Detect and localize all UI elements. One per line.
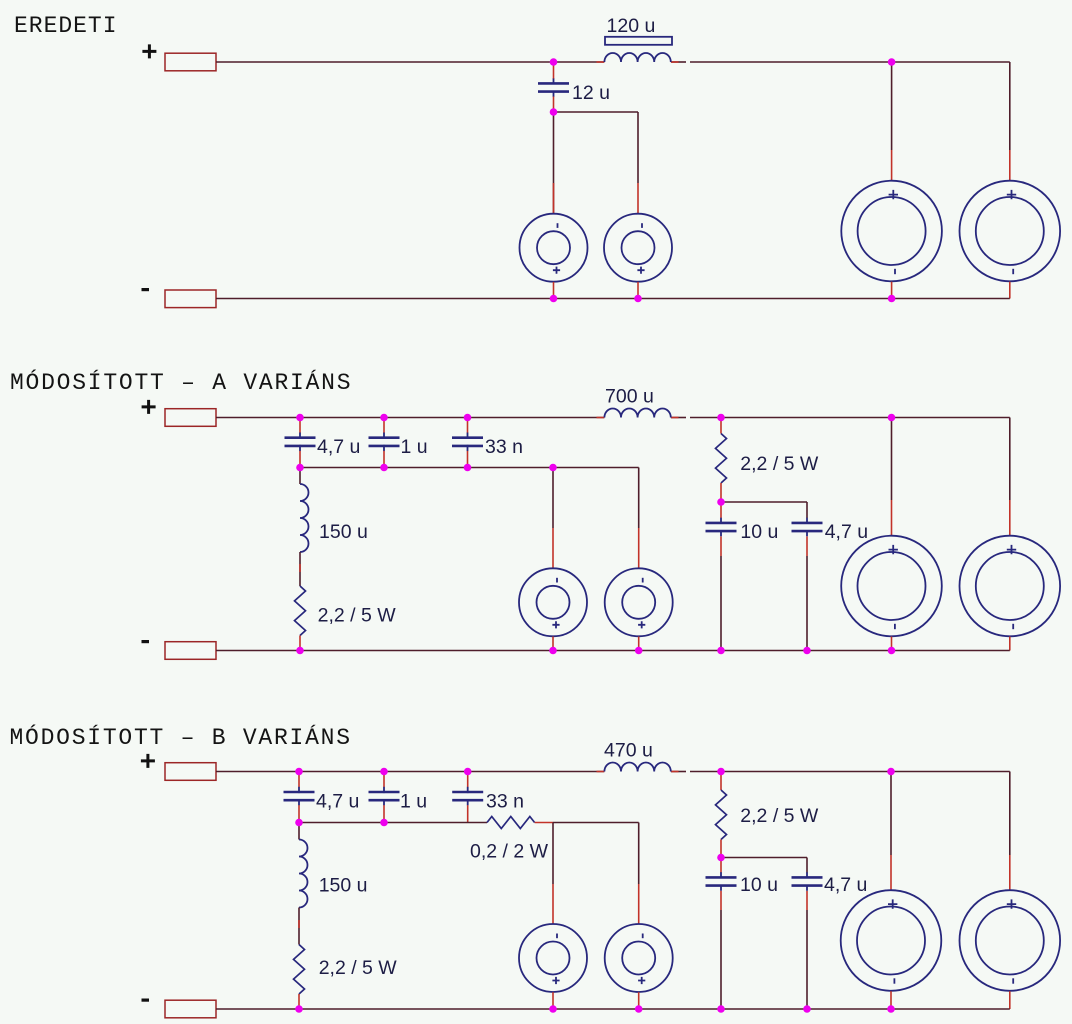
resistor shunt bottom lead (720, 840, 722, 858)
svg-text:2,2 / 5 W: 2,2 / 5 W (740, 453, 819, 475)
capacitor C 1u bottom lead (383, 451, 385, 468)
wire bottom net (216, 650, 1010, 652)
svg-text:700 u: 700 u (605, 386, 654, 408)
capacitor C 4,7u bottom lead (806, 891, 808, 910)
wire tweeter2 pin lead (638, 884, 640, 924)
junction below C 12u (550, 108, 558, 116)
wire tweeter1 pin lead (553, 183, 555, 214)
terminal + (input) (165, 763, 216, 781)
junction top at R shunt (717, 414, 725, 422)
wire C 10u to bottom (720, 910, 722, 1009)
capacitor C 12u top lead (553, 62, 555, 79)
capacitor C 33n bottom lead (467, 451, 469, 468)
svg-text:33 n: 33 n (485, 436, 523, 458)
wire woofer2 feed corner (1009, 418, 1011, 501)
junction second net below C 33n (464, 464, 472, 472)
inductor L 150u coil (299, 840, 308, 908)
speaker woofer 2 (960, 536, 1061, 637)
svg-text:150 u: 150 u (319, 521, 368, 543)
wire woofer1 bottom lead (891, 637, 893, 651)
junction below R shunt (717, 854, 725, 862)
junction top at C 12u (550, 58, 558, 66)
wire woofer2 bottom lead (1009, 991, 1011, 1009)
junction bottom C 4,7u (803, 1005, 811, 1013)
wire tweeter2 bottom lead (637, 282, 639, 299)
speaker woofer 2 (960, 890, 1061, 991)
inductor L 120u coil (604, 53, 670, 62)
plus polarity mark (141, 754, 155, 768)
wire C 4,7u drop (806, 858, 808, 873)
wire C 4,7u drop (806, 502, 808, 518)
svg-text:4,7 u: 4,7 u (824, 874, 867, 896)
wire second net horizontal (299, 822, 487, 824)
capacitor C 4,7u top stem (298, 772, 300, 788)
junction below R shunt (717, 498, 725, 506)
capacitor C 4,7u bottom lead (299, 451, 301, 468)
svg-text:1 u: 1 u (400, 790, 427, 812)
wire tweeter1 bottom lead (553, 282, 555, 299)
junction bottom woofer1 (888, 295, 896, 303)
svg-text:2,2 / 5 W: 2,2 / 5 W (740, 805, 819, 827)
junction second net at tweeter1 (549, 464, 557, 472)
wire bottom net (216, 1008, 1010, 1010)
wire woofer1 feed (891, 418, 893, 501)
capacitor C 1u plates (369, 433, 400, 452)
wire woofer2 bottom lead (1009, 637, 1011, 651)
wire tweeter2 bottom lead (638, 637, 640, 651)
terminal - (input) (165, 642, 216, 660)
capacitor C 33n plates (452, 433, 483, 452)
terminal - (input) (165, 290, 216, 308)
resistor R 2,2/5W shunt zigzag (716, 434, 727, 484)
junction second net below C 1u (380, 464, 388, 472)
capacitor C 4,7u bottom lead (806, 536, 808, 556)
svg-text:2,2 / 5 W: 2,2 / 5 W (318, 605, 397, 627)
inductor L 150u top lead (298, 823, 300, 840)
wire top net segment right of L1 (671, 61, 686, 63)
wire top net left of L 700u (216, 417, 604, 419)
speaker woofer 1 (841, 536, 942, 637)
L 150u bottom pin lead dash (298, 920, 300, 928)
resistor bottom lead (299, 636, 301, 651)
junction bottom at L/R branch (295, 1005, 303, 1013)
svg-text:12 u: 12 u (572, 82, 610, 104)
junction bottom tweeter1 (549, 647, 557, 655)
speaker tweeter 1 (519, 924, 587, 992)
terminal + (input) (165, 409, 216, 427)
junction top at woofer1 (888, 414, 896, 422)
svg-text:MÓDOSÍTOTT – A VARIÁNS: MÓDOSÍTOTT – A VARIÁNS (10, 368, 352, 396)
junction bottom C 10u (717, 1005, 725, 1013)
svg-text:10 u: 10 u (740, 874, 778, 896)
speaker tweeter 2 (605, 568, 673, 636)
wire link to tweeter2 (553, 822, 639, 824)
wire C 10u to bottom (720, 556, 722, 651)
capacitor C 33n top stem (467, 772, 469, 788)
wire woofer1 pin lead (891, 150, 893, 181)
wire tweeter2 feed (637, 112, 639, 183)
wire C 4,7u to bottom (806, 910, 808, 1009)
resistor R 2,2/5W shunt top lead (720, 418, 722, 434)
junction bottom woofer1 (887, 1005, 895, 1013)
wire top net right of L 700u (671, 417, 686, 419)
speaker woofer 2 (960, 181, 1061, 282)
wire woofer2 pin lead (1009, 500, 1011, 536)
wire RC link horizontal (721, 501, 807, 503)
junction top at R shunt (717, 768, 725, 776)
junction top at C 33n (464, 768, 472, 776)
svg-text:0,2 / 2 W: 0,2 / 2 W (470, 841, 549, 863)
resistor shunt bottom lead (720, 483, 722, 502)
capacitor C 10u plates (706, 872, 737, 891)
wire tweeter1 feed (552, 468, 554, 529)
junction bottom tweeter2 (635, 1005, 643, 1013)
capacitor C 4,7u plates (284, 787, 315, 806)
wire bottom net (216, 298, 1010, 300)
junction top at C 1u (380, 768, 388, 776)
wire tweeter2 bottom lead (638, 992, 640, 1009)
junction bottom tweeter1 (550, 295, 558, 303)
speaker woofer 1 (841, 181, 942, 282)
inductor L 150u coil (300, 484, 309, 552)
junction top at C 1u (380, 414, 388, 422)
capacitor C 4,7u plates (792, 872, 823, 891)
resistor R 2,2/5W series zigzag (295, 586, 306, 636)
wire woofer1 bottom lead (891, 282, 893, 299)
inductor L 470u coil (604, 763, 670, 772)
junction bottom tweeter1 (549, 1005, 557, 1013)
resistor R 0,2/2W zigzag (487, 817, 535, 829)
minus polarity mark (142, 999, 150, 1002)
svg-text:2,2 / 5 W: 2,2 / 5 W (319, 957, 398, 979)
svg-text:33 n: 33 n (486, 790, 524, 812)
resistor R 2,2/5W shunt top lead (720, 772, 722, 791)
junction top at C 4,7u (295, 768, 303, 776)
capacitor C 4,7u top stem (299, 418, 301, 433)
wire woofer2 pin lead (1009, 855, 1011, 890)
wire tweeter2 feed (638, 823, 640, 885)
wire woofer1 pin lead (890, 855, 892, 890)
junction second net below C 1u (380, 819, 388, 827)
resistor R 2,2/5W shunt zigzag (716, 790, 727, 840)
capacitor C 4,7u bottom lead (298, 805, 300, 822)
wire tweeter2 pin lead (637, 183, 639, 214)
capacitor C 33n plates (452, 787, 483, 806)
capacitor C 12u bottom lead (553, 97, 555, 113)
svg-text:150 u: 150 u (319, 875, 368, 897)
minus polarity mark (142, 288, 150, 291)
wire woofer2 pin lead (1009, 150, 1011, 181)
capacitor C 33n top stem (467, 418, 469, 433)
junction top at woofer1 (888, 58, 896, 66)
wire woofer2 feed corner (1009, 62, 1011, 150)
junction bottom tweeter2 (634, 295, 642, 303)
wire tweeter1 pin lead (552, 528, 554, 568)
wire tweeter1 bottom lead (552, 637, 554, 651)
wire mid net horizontal (554, 111, 639, 113)
capacitor C 4,7u plates (792, 518, 823, 537)
wire between L 150u and R 2,2 (299, 552, 301, 586)
wire RC link horizontal (721, 857, 807, 859)
svg-text:120 u: 120 u (607, 15, 656, 37)
wire top net right of L 470u (671, 771, 686, 773)
wire tweeter1 bottom lead (552, 992, 554, 1009)
plus polarity mark (142, 44, 156, 58)
capacitor C 33n bottom lead (467, 805, 469, 822)
wire top net left of L 470u (216, 771, 604, 773)
capacitor C 1u top stem (383, 772, 385, 788)
wire after R 0,2 (535, 822, 553, 824)
wire woofer1 bottom lead (890, 991, 892, 1009)
wire tweeter1 feed (553, 112, 555, 214)
capacitor C 4,7u plates (285, 433, 316, 452)
speaker tweeter 1 (519, 568, 587, 636)
svg-text:4,7 u: 4,7 u (316, 790, 359, 812)
wire woofer1 feed (891, 62, 893, 150)
svg-text:MÓDOSÍTOTT – B VARIÁNS: MÓDOSÍTOTT – B VARIÁNS (10, 723, 352, 751)
wire C 4,7u to bottom (806, 556, 808, 651)
junction second net below C 4,7u (295, 819, 303, 827)
wire tweeter1 feed (552, 823, 554, 885)
capacitor C 10u plates (706, 518, 737, 537)
capacitor C 10u bottom lead (720, 891, 722, 910)
speaker tweeter 2 (604, 214, 672, 282)
junction bottom at L/R branch (296, 647, 304, 655)
svg-text:1 u: 1 u (401, 436, 428, 458)
inductor L 150u top lead (299, 468, 301, 485)
svg-text:EREDETI: EREDETI (14, 13, 118, 39)
terminal - (input) (165, 1000, 216, 1018)
capacitor C 12u plates (538, 78, 569, 97)
wire top net segment left of L1 (216, 61, 604, 63)
wire between L 150u and R 2,2 (298, 908, 300, 945)
svg-text:4,7 u: 4,7 u (317, 436, 360, 458)
svg-text:10 u: 10 u (740, 521, 778, 543)
capacitor C 1u bottom lead (383, 805, 385, 822)
L 150u bottom pin lead dash (299, 564, 301, 572)
inductor L 120u core bar (605, 37, 672, 45)
capacitor C 10u top lead (720, 858, 722, 873)
resistor bottom lead (298, 994, 300, 1009)
junction second net below C 4,7u (296, 464, 304, 472)
wire woofer2 bottom lead (1009, 282, 1011, 299)
capacitor C 10u bottom lead (720, 536, 722, 556)
junction bottom tweeter2 (635, 647, 643, 655)
wire woofer1 feed (890, 772, 892, 856)
wire second net horizontal (300, 467, 639, 469)
wire woofer2 feed corner (1009, 772, 1011, 856)
resistor R 2,2/5W series zigzag (294, 945, 305, 995)
minus polarity mark (142, 640, 150, 643)
terminal + (input) (165, 53, 216, 71)
svg-text:4,7 u: 4,7 u (825, 521, 868, 543)
speaker tweeter 1 (520, 214, 588, 282)
junction bottom C 4,7u (803, 647, 811, 655)
junction bottom woofer1 (888, 647, 896, 655)
wire tweeter2 feed corner (638, 468, 640, 529)
inductor L 700u coil (604, 409, 670, 418)
svg-text:470 u: 470 u (604, 740, 653, 762)
capacitor C 1u plates (369, 787, 400, 806)
wire woofer1 pin lead (891, 500, 893, 536)
speaker woofer 1 (841, 890, 942, 991)
junction top at woofer1 (887, 768, 895, 776)
junction top at C 33n (464, 414, 472, 422)
junction top at C 4,7u (296, 414, 304, 422)
wire tweeter1 pin lead (552, 884, 554, 924)
plus polarity mark (142, 400, 156, 414)
capacitor C 10u top lead (720, 502, 722, 518)
capacitor C 1u top stem (383, 418, 385, 433)
speaker tweeter 2 (605, 924, 673, 992)
junction bottom C 10u (717, 647, 725, 655)
wire tweeter2 pin lead (638, 528, 640, 568)
